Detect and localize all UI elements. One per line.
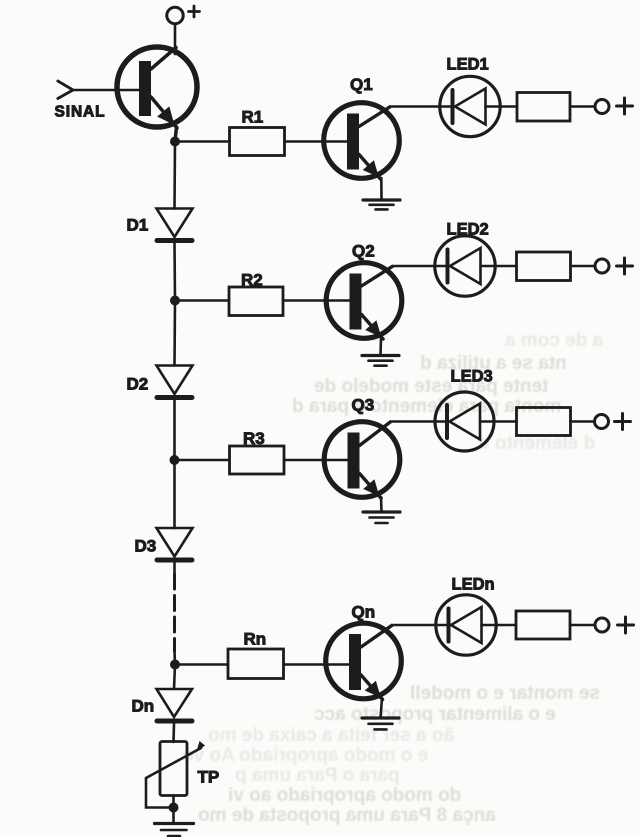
svg-text:nta se a utiliza d: nta se a utiliza d xyxy=(420,353,567,374)
ground Qn xyxy=(362,718,399,729)
label TP xyxy=(198,768,220,787)
svg-text:Q3: Q3 xyxy=(352,396,375,415)
diode D3 xyxy=(157,528,193,560)
wire: dashed section to node N xyxy=(173,651,176,665)
wire: R2 to Q2 base xyxy=(283,299,350,302)
label LEDn xyxy=(452,576,495,594)
wire: Q1 collector to LED1 xyxy=(392,105,453,108)
wire: node B to R2 xyxy=(175,299,229,302)
wire: node A to R1 xyxy=(175,140,230,143)
label D2 xyxy=(127,375,149,394)
resistor Rn xyxy=(228,649,284,679)
trimpot TP xyxy=(146,741,205,796)
svg-text:R3: R3 xyxy=(243,429,265,448)
wire: LED2 to series resistor row2 xyxy=(481,265,517,268)
wire: Q2 emitter to ground xyxy=(379,338,382,355)
series resistor row2 (unlabeled) xyxy=(517,252,571,281)
SINAL input arrow and wire xyxy=(58,81,139,99)
transistor Q3 xyxy=(324,422,400,498)
wire: Q2 collector to LED2 xyxy=(395,265,448,268)
svg-text:Rn: Rn xyxy=(244,630,267,649)
label Q1 xyxy=(350,75,373,94)
ground Q3 xyxy=(363,512,400,523)
label LED1 xyxy=(447,56,489,74)
label R3 xyxy=(243,429,265,448)
wire: resistor to +V terminal row1 xyxy=(570,105,594,108)
input transistor xyxy=(117,47,197,141)
wire: resistor to +V terminal row2 xyxy=(571,265,594,268)
wire: node A to D1 xyxy=(173,142,176,209)
wire: LEDn to series resistor row4 xyxy=(482,624,517,627)
wire: resistor to +V terminal row4 xyxy=(570,624,594,627)
wire: TP bottom to bottom node xyxy=(172,796,175,808)
svg-text:R2: R2 xyxy=(241,271,263,290)
series resistor row4 (unlabeled) xyxy=(516,611,570,639)
wire: Q3 collector to LED3 xyxy=(393,420,448,423)
wire: LED1 to series resistor row1 xyxy=(486,105,518,108)
svg-text:LEDn: LEDn xyxy=(452,576,495,594)
diode Dn xyxy=(157,689,193,721)
wire: resistor to +V terminal row3 xyxy=(571,420,594,423)
svg-text:e o modo apropriado Ao ve: e o modo apropriado Ao ve xyxy=(183,745,428,766)
wire: LED3 to series resistor row3 xyxy=(480,420,517,423)
label LED2 xyxy=(447,221,489,239)
V+ terminal top xyxy=(167,6,200,24)
svg-text:D3: D3 xyxy=(135,537,157,556)
node C junction xyxy=(170,455,180,465)
label Dn xyxy=(132,697,155,716)
transistor Q1 xyxy=(324,103,400,179)
wire: Rn to Qn base xyxy=(284,663,350,666)
LED LED2 xyxy=(435,236,495,296)
+V terminal row2 xyxy=(595,258,633,274)
wire: V+ terminal to input transistor collector xyxy=(174,24,177,54)
svg-text:ão a ser feita a caixa d: ão a ser feita a caixa de mo xyxy=(208,725,454,746)
svg-text:D2: D2 xyxy=(127,375,149,394)
ground bottom xyxy=(155,824,194,837)
wire: node C to R3 xyxy=(175,459,230,462)
wire: Qn emitter to ground xyxy=(381,699,383,718)
label Qn xyxy=(352,603,376,622)
wire: Dn to trimpot TP xyxy=(172,724,175,743)
label Q3 xyxy=(352,396,375,415)
svg-text:R1: R1 xyxy=(242,108,264,127)
label SINAL xyxy=(55,104,106,121)
resistor R2 xyxy=(229,287,283,316)
svg-text:Q2: Q2 xyxy=(352,242,375,261)
svg-text:do modo apropriado ao vi: do modo apropriado ao vi xyxy=(228,785,461,806)
svg-text:SINAL: SINAL xyxy=(55,104,106,121)
node A junction xyxy=(170,137,180,147)
diode D2 xyxy=(157,366,193,398)
wire: node N to Rn xyxy=(175,663,228,666)
wire: R3 to Q3 base xyxy=(284,459,348,462)
LED LED3 xyxy=(435,392,494,451)
label R2 xyxy=(241,271,263,290)
label LED3 xyxy=(451,368,493,386)
wire: D1 to node B xyxy=(173,243,176,301)
wire: Q1 emitter to ground xyxy=(380,178,383,199)
transistor Qn xyxy=(326,623,402,699)
bottom node junction xyxy=(169,803,179,813)
label Q2 xyxy=(352,242,375,261)
svg-text:LED1: LED1 xyxy=(447,56,489,74)
LED LEDn xyxy=(436,595,496,655)
ground Q2 xyxy=(362,356,399,366)
label R1 xyxy=(242,108,264,127)
+V terminal row3 xyxy=(595,414,631,430)
wire: node B to D2 xyxy=(173,301,176,366)
svg-text:Dn: Dn xyxy=(132,697,155,716)
dashed wire (omitted stages) xyxy=(173,574,176,651)
wire: bottom node to ground xyxy=(172,808,175,824)
resistor R3 xyxy=(230,446,285,474)
wire: Qn collector to LEDn xyxy=(394,624,449,627)
transistor Q2 xyxy=(326,263,402,339)
+V terminal row1 xyxy=(595,98,633,114)
LED LED1 xyxy=(440,76,500,136)
+V terminal row4 xyxy=(595,617,634,633)
wire: D3 to dashed section xyxy=(173,563,176,574)
label Rn xyxy=(244,630,267,649)
series resistor row3 (unlabeled) xyxy=(517,408,571,436)
svg-text:ança 8 Para uma proposta: ança 8 Para uma proposta de mo xyxy=(198,805,496,826)
ground Q1 xyxy=(363,200,400,209)
wire: R1 to Q1 base xyxy=(285,140,348,143)
svg-text:se montar e o modell: se montar e o modell xyxy=(410,683,600,704)
svg-text:D1: D1 xyxy=(127,216,149,235)
node B junction xyxy=(170,296,180,306)
svg-text:LED2: LED2 xyxy=(447,221,489,239)
diode D1 xyxy=(157,209,193,241)
wire: node N to Dn xyxy=(174,665,175,690)
node N junction xyxy=(170,660,180,670)
wire: D2 to node C xyxy=(173,400,176,460)
svg-text:para o Para uma p: para o Para uma p xyxy=(235,765,400,786)
wire: node C to D3 xyxy=(173,460,176,528)
svg-text:a de com a: a de com a xyxy=(505,330,604,351)
svg-text:tente para este modelo de: tente para este modelo de xyxy=(314,376,548,397)
series resistor row1 (unlabeled) xyxy=(517,93,570,122)
wire: Q3 emitter to ground xyxy=(380,497,383,512)
label D1 xyxy=(127,216,149,235)
svg-text:Qn: Qn xyxy=(352,603,376,622)
svg-text:e o alimentar proposto acc: e o alimentar proposto acc xyxy=(314,704,556,725)
svg-text:TP: TP xyxy=(198,768,220,787)
svg-text:LED3: LED3 xyxy=(451,368,493,386)
svg-text:Q1: Q1 xyxy=(350,75,373,94)
resistor R1 xyxy=(230,128,285,156)
wire: TP wiper bypass to bottom node xyxy=(146,778,174,808)
label D3 xyxy=(135,537,157,556)
